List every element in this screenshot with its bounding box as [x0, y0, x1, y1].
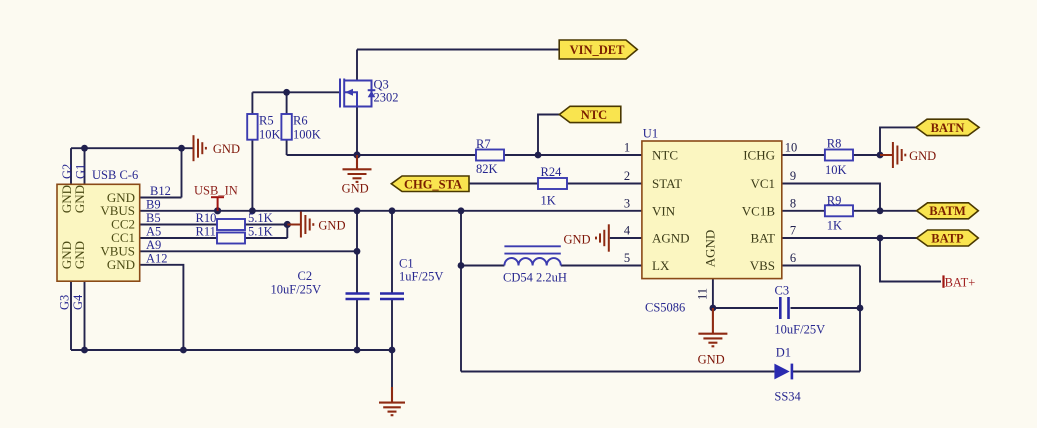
wire A9 row	[140, 250, 357, 252]
svg-text:5.1K: 5.1K	[248, 225, 273, 239]
svg-text:1K: 1K	[541, 194, 556, 208]
svg-text:C1: C1	[399, 257, 414, 271]
wire G1 pin up	[84, 148, 86, 184]
svg-text:A5: A5	[146, 224, 161, 238]
svg-text:VC1: VC1	[750, 176, 775, 191]
wire C1 gnd stem upper	[391, 350, 393, 387]
svg-text:4: 4	[624, 224, 631, 238]
wire C1 bottom	[391, 300, 393, 350]
svg-text:GND: GND	[698, 353, 725, 367]
wire B5 row to R10	[140, 224, 217, 226]
wire R10-R11 join vertical	[286, 225, 288, 239]
svg-text:5.1K: 5.1K	[248, 211, 273, 225]
wire C1 top	[391, 211, 393, 293]
wire NTC row left of R7	[287, 154, 476, 156]
svg-text:R24: R24	[541, 165, 563, 179]
wire VBS pin6	[782, 265, 860, 267]
svg-text:10: 10	[785, 141, 798, 155]
wire NTC flag tee	[538, 115, 559, 156]
svg-text:R5: R5	[259, 114, 274, 128]
svg-text:R9: R9	[827, 194, 842, 208]
IC U1 CS5086 body	[642, 141, 782, 279]
connector J? USB C-6 body	[57, 184, 140, 281]
wire AGND pin4 stub	[610, 237, 642, 239]
svg-text:D1: D1	[776, 346, 791, 360]
svg-text:G2: G2	[60, 164, 74, 179]
wire GND top rail from G pins	[71, 147, 193, 149]
svg-text:GND: GND	[72, 185, 87, 213]
ground symbol sideways near R10/R11	[287, 212, 313, 238]
svg-text:GND: GND	[213, 142, 240, 156]
svg-text:U1: U1	[643, 127, 658, 141]
wire drop to B12	[181, 148, 183, 197]
net label USB_IN tick	[211, 197, 224, 211]
svg-text:STAT: STAT	[652, 176, 682, 191]
wire VBUS vertical drop x461	[460, 211, 462, 372]
svg-text:GND: GND	[107, 257, 135, 272]
svg-text:10uF/25V: 10uF/25V	[271, 283, 322, 297]
wire pin11 stub	[712, 279, 714, 308]
svg-text:AGND: AGND	[652, 231, 690, 246]
pin names USB connector	[100, 190, 135, 272]
wire R6 bottom stub	[286, 140, 288, 155]
wire BATN tee up	[880, 127, 916, 155]
svg-text:GND: GND	[909, 149, 936, 163]
wire A5 row to R11	[140, 237, 217, 239]
wire corner up to VBS	[859, 266, 861, 372]
capacitor C3 plates	[779, 297, 782, 319]
svg-text:VBS: VBS	[750, 258, 775, 273]
ground symbol sideways near R8	[880, 142, 905, 168]
net flag BATN	[916, 119, 979, 135]
svg-text:BATM: BATM	[929, 204, 966, 218]
wire R5 bottom stub to VBUS	[251, 140, 253, 211]
wire R10 right	[245, 224, 287, 226]
transistor Q3 MOSFET	[340, 79, 372, 108]
svg-text:1: 1	[624, 141, 630, 155]
resistor R6	[281, 114, 291, 140]
svg-text:G1: G1	[74, 164, 88, 179]
text labels: blue designators/values	[58, 78, 847, 404]
resistor R10	[217, 219, 245, 230]
svg-text:11: 11	[696, 288, 710, 300]
svg-text:G3: G3	[58, 295, 72, 310]
wire C2 top	[356, 211, 358, 293]
resistor R8	[825, 150, 853, 161]
diode D1 SS34	[774, 364, 792, 380]
svg-text:10uF/25V: 10uF/25V	[774, 323, 825, 337]
svg-text:GND: GND	[564, 232, 591, 246]
svg-text:B12: B12	[150, 184, 171, 198]
wire R11 right	[245, 237, 287, 239]
svg-text:SS34: SS34	[774, 390, 801, 404]
svg-text:C2: C2	[298, 269, 313, 283]
svg-text:2302: 2302	[374, 91, 399, 105]
svg-text:GND: GND	[318, 219, 345, 233]
svg-text:C3: C3	[775, 284, 790, 298]
svg-text:CHG_STA: CHG_STA	[404, 177, 462, 191]
wire ICHG pin10 to R8	[782, 154, 825, 156]
wire bottom rail to D1 anode	[461, 371, 774, 373]
svg-text:R7: R7	[476, 137, 491, 151]
resistor R24	[538, 178, 567, 189]
ground symbol sideways near USB top	[194, 135, 206, 161]
ground symbol below Q3	[343, 155, 372, 182]
svg-text:5: 5	[624, 251, 630, 265]
svg-text:3: 3	[624, 196, 630, 210]
ground symbol bottom center	[379, 387, 405, 415]
svg-text:R8: R8	[827, 137, 842, 151]
svg-text:R11: R11	[196, 225, 216, 239]
capacitor C2 plates	[346, 294, 789, 320]
net flag texts	[404, 43, 966, 246]
svg-text:CS5086: CS5086	[645, 301, 685, 315]
wire VBUS B9 rail to U1 pin3 VIN	[140, 210, 642, 212]
wire R24 to U1 pin2 STAT	[567, 183, 642, 185]
wire A12 row	[140, 265, 184, 350]
resistor R7	[476, 150, 504, 161]
inductor L1 CD54 2.2uH	[504, 246, 560, 265]
pin numbers	[624, 141, 797, 301]
net flag BATP	[917, 230, 979, 246]
svg-text:VC1B: VC1B	[742, 203, 776, 218]
wire G4 pin down	[84, 281, 86, 350]
svg-text:GND: GND	[342, 181, 369, 195]
wire VC1 pin9 over and down	[782, 184, 880, 211]
net flag VIN_DET	[559, 40, 637, 59]
svg-text:R10: R10	[196, 211, 217, 225]
svg-text:NTC: NTC	[652, 148, 678, 163]
resistor R9	[825, 205, 853, 216]
ground symbol below pin11	[698, 308, 727, 346]
net flag CHG_STA	[391, 176, 469, 192]
resistor R11	[217, 233, 245, 244]
wire VC1B pin8 to R9	[782, 210, 825, 212]
svg-text:BATP: BATP	[931, 231, 964, 245]
svg-text:BATN: BATN	[931, 121, 965, 135]
svg-text:VIN_DET: VIN_DET	[570, 43, 626, 57]
net flag NTC	[559, 106, 621, 122]
wire NTC row right of R7 to U1 pin1	[504, 154, 642, 156]
wire BAT+ drop	[880, 238, 941, 282]
svg-text:R6: R6	[293, 114, 308, 128]
svg-text:LX: LX	[652, 258, 670, 273]
svg-text:82K: 82K	[476, 162, 498, 176]
wire inductor to U1 pin5 LX	[561, 265, 642, 267]
wire Q3 gate line	[252, 91, 340, 93]
svg-text:A9: A9	[146, 238, 161, 252]
svg-text:2: 2	[624, 169, 630, 183]
svg-text:B5: B5	[146, 211, 161, 225]
wire D1 cathode to corner	[793, 371, 860, 373]
wire B12 stub	[140, 197, 182, 199]
wire C2 bottom	[356, 300, 358, 350]
wire R8 right to junction	[853, 154, 880, 156]
wire Q3 source down	[356, 107, 358, 156]
wire Q3 drain up	[356, 50, 358, 81]
svg-text:10K: 10K	[825, 163, 847, 177]
svg-text:7: 7	[790, 224, 796, 238]
svg-text:G4: G4	[71, 294, 85, 310]
resistor R5	[217, 114, 853, 244]
pin names U1	[652, 148, 690, 274]
capacitor C1 plates	[380, 292, 404, 295]
svg-text:GND: GND	[72, 241, 87, 269]
ground symbol sideways mirrored at pin4 AGND	[596, 224, 609, 251]
wire C3 row left	[713, 307, 778, 309]
wire C3 row right	[791, 307, 861, 309]
power port BAT+ tick	[942, 275, 944, 287]
svg-text:CD54 2.2uH: CD54 2.2uH	[503, 271, 567, 285]
svg-text:BAT+: BAT+	[945, 275, 976, 289]
svg-text:A12: A12	[146, 251, 168, 265]
svg-text:VIN: VIN	[652, 203, 676, 218]
net flag BATM	[917, 203, 979, 219]
wire CHG_STA to R24	[469, 183, 538, 185]
wire R5 top stub	[251, 92, 253, 114]
wire G3 pin down	[70, 281, 72, 350]
wire R9 right to BATM	[853, 210, 917, 212]
wire G2 pin up	[70, 148, 72, 184]
svg-text:ICHG: ICHG	[743, 148, 775, 163]
svg-text:USB C-6: USB C-6	[92, 168, 138, 182]
svg-text:Q3: Q3	[374, 78, 389, 92]
svg-text:USB_IN: USB_IN	[194, 184, 238, 198]
svg-text:1K: 1K	[827, 219, 842, 233]
wire R6 top stub	[286, 92, 288, 114]
svg-text:NTC: NTC	[581, 108, 607, 122]
GND power port texts	[213, 142, 936, 366]
wire LX row to inductor	[461, 265, 504, 267]
svg-text:B9: B9	[146, 197, 161, 211]
svg-text:100K: 100K	[293, 128, 321, 142]
wire to VIN_DET flag	[357, 49, 559, 51]
svg-text:9: 9	[790, 169, 796, 183]
svg-text:8: 8	[790, 196, 796, 210]
wire BAT pin7 to BATP	[782, 237, 917, 239]
svg-text:6: 6	[790, 251, 796, 265]
wire cap ground rail	[71, 349, 392, 351]
svg-text:AGND: AGND	[703, 230, 718, 268]
svg-text:10K: 10K	[259, 128, 281, 142]
svg-text:BAT: BAT	[750, 231, 775, 246]
svg-text:1uF/25V: 1uF/25V	[399, 270, 443, 284]
